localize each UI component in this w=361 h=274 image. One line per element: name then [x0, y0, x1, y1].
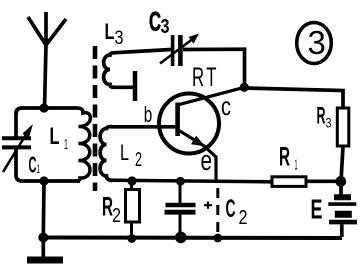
svg-text:E: E	[311, 194, 323, 225]
svg-text:c: c	[221, 91, 231, 121]
svg-text:b: b	[144, 102, 153, 127]
svg-text:RT: RT	[192, 62, 219, 92]
svg-text:2: 2	[239, 207, 248, 229]
svg-text:1: 1	[295, 157, 298, 174]
svg-text:3: 3	[161, 16, 170, 38]
svg-text:e: e	[201, 145, 213, 177]
svg-text:C: C	[149, 7, 161, 37]
svg-text:1: 1	[64, 136, 68, 153]
svg-text:L: L	[50, 123, 60, 150]
svg-text:3: 3	[326, 115, 332, 131]
svg-text:2: 2	[135, 149, 142, 171]
svg-text:L: L	[105, 19, 115, 44]
svg-text:3: 3	[308, 24, 326, 61]
svg-text:L: L	[120, 140, 129, 165]
svg-text:R: R	[317, 103, 326, 130]
svg-text:3: 3	[115, 28, 124, 49]
svg-text:C: C	[29, 151, 37, 177]
svg-text:2: 2	[112, 205, 121, 227]
svg-text:C: C	[226, 195, 236, 223]
svg-text:1: 1	[37, 162, 41, 176]
svg-text:R: R	[279, 142, 290, 172]
